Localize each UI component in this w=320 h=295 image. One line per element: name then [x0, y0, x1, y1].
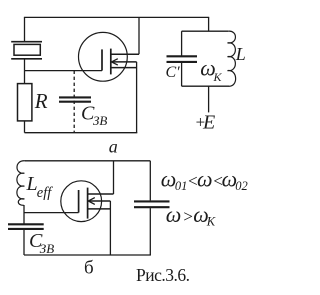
- wire: tank bottom: [182, 85, 229, 87]
- capacitor C3B plates (b): [8, 224, 44, 229]
- inductor Leff coil: [17, 161, 25, 206]
- wire: right branch lower (b): [149, 208, 151, 255]
- transistor VT1 circle (a): [79, 32, 128, 81]
- svg-text:R: R: [34, 89, 48, 113]
- wire: right branch upper (b): [149, 161, 151, 201]
- wire: bottom rail (b): [24, 254, 151, 256]
- svg-text:ЗВ: ЗВ: [40, 241, 54, 256]
- svg-text:L: L: [26, 173, 38, 195]
- transistor VT1 middle lead: [112, 61, 137, 63]
- transistor VT2 middle lead: [89, 200, 111, 202]
- wire: source down to rail (b): [109, 201, 111, 255]
- svg-text:б: б: [84, 258, 94, 279]
- wire: gate wire (a): [25, 70, 103, 72]
- transistor VT1 channel line: [110, 49, 112, 75]
- transistor VT1 arrow: [112, 59, 118, 65]
- svg-text:ЗВ: ЗВ: [93, 113, 107, 128]
- capacitor C' plates: [167, 56, 198, 62]
- svg-text:+E: +E: [195, 112, 216, 134]
- crystal ZQ1 body: [14, 44, 40, 55]
- transistor VT1 drain lead: [111, 53, 139, 55]
- svg-text:C′: C′: [166, 64, 181, 81]
- svg-text:eff: eff: [37, 185, 53, 201]
- wire: rail drop to tank: [208, 17, 210, 31]
- wire: tank top: [182, 30, 228, 32]
- transistor VT2 circle (b): [61, 181, 102, 222]
- wire: tank left upper: [181, 31, 183, 55]
- transistor VT1 gate line: [101, 49, 103, 70]
- svg-text:ω01<ω<ω02: ω01<ω<ω02: [161, 166, 248, 193]
- transistor VT2 drain lead: [88, 193, 114, 195]
- resistor R: [18, 84, 32, 121]
- wire: resistor to bottom rail: [24, 121, 26, 133]
- wire: crystal bottom lead: [24, 59, 26, 70]
- capacitor C3B plates (a): [59, 97, 91, 101]
- wire: tank left lower: [181, 63, 183, 87]
- svg-text:L: L: [235, 44, 246, 64]
- capacitor C right plates (b): [134, 201, 170, 207]
- crystal ZQ1 plates: [11, 42, 42, 59]
- wire: +E lead: [208, 86, 210, 112]
- transistor VT1 source lead: [111, 67, 137, 69]
- wire: top rail (circuit b): [25, 160, 150, 162]
- inductor L coil: [228, 31, 236, 86]
- wire: drain up to rail (b): [113, 161, 115, 194]
- wire: source down to rail: [136, 62, 138, 133]
- svg-text:а: а: [109, 136, 118, 156]
- transistor VT2 arrow: [88, 198, 94, 205]
- wire: drain up to rail: [138, 17, 140, 54]
- wire: bottom rail (a): [25, 132, 138, 134]
- transistor VT2 channel line: [87, 188, 89, 219]
- wire: crystal top lead: [24, 17, 26, 41]
- transistor VT2 source lead: [88, 208, 111, 210]
- wire: top rail (circuit a): [24, 16, 209, 18]
- wire: gate wire (b): [24, 212, 79, 214]
- svg-text:ω>ωК: ω>ωК: [166, 202, 216, 229]
- transistor VT2 gate line: [78, 190, 80, 213]
- svg-text:Рис.3.6.: Рис.3.6.: [136, 265, 190, 285]
- capacitor C3B dashed lead (a): [73, 71, 75, 133]
- wire: C3B to bottom rail: [23, 230, 25, 256]
- svg-text:К: К: [213, 70, 223, 84]
- wire: junction down to resistor: [24, 71, 26, 84]
- wire: coil to C3B: [23, 205, 25, 224]
